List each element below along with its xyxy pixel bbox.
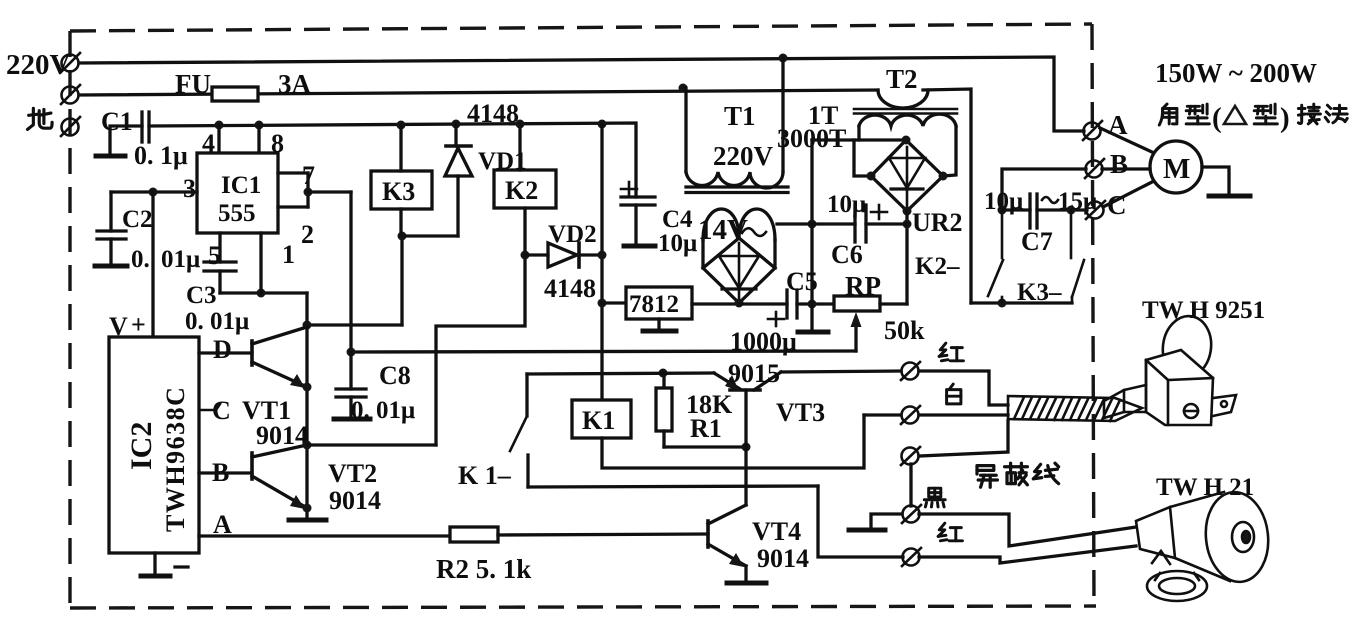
node VD1 top	[452, 120, 461, 129]
label hong5 red	[938, 523, 962, 541]
contact K3- switch	[1071, 210, 1084, 303]
sensor module TWH9251	[1104, 313, 1236, 425]
node VT1 emitter	[303, 383, 312, 392]
svg-text:K 1–: K 1–	[458, 461, 512, 490]
svg-text:VD2: VD2	[548, 221, 597, 248]
transformer T1 primary	[686, 58, 783, 188]
svg-text:0. 01μ: 0. 01μ	[185, 308, 249, 335]
enclosure dashed boundary	[70, 24, 1096, 608]
svg-text:IC2: IC2	[125, 422, 158, 470]
wire K3 to VD1	[402, 234, 458, 237]
capacitor C2	[97, 192, 126, 264]
node rail-352	[347, 348, 356, 357]
motor terminal C	[1086, 201, 1105, 219]
capacitor C8	[336, 352, 366, 417]
svg-text:R1: R1	[690, 414, 722, 443]
wire dc bus y304	[739, 302, 834, 305]
svg-text:15μ: 15μ	[1058, 188, 1097, 215]
svg-text:D: D	[213, 335, 232, 364]
T1 core	[686, 187, 788, 193]
wire hong5 staircase	[818, 486, 903, 557]
svg-text:14V: 14V	[698, 214, 748, 246]
svg-text:0. 01μ: 0. 01μ	[351, 397, 415, 424]
wire timing rail y352	[351, 351, 856, 352]
wire D to VT1	[199, 351, 252, 354]
motor ground	[1209, 194, 1250, 199]
wire hong1 to cable	[919, 371, 1008, 405]
svg-text:0.: 0.	[131, 246, 150, 273]
svg-text:C8: C8	[379, 361, 411, 390]
relay coil K2	[494, 170, 556, 208]
C4 end bar	[624, 244, 655, 249]
svg-text:IC1: IC1	[221, 172, 261, 199]
wire VT3 collector rail	[527, 373, 714, 374]
svg-text:4148: 4148	[544, 274, 596, 303]
svg-text:K2: K2	[505, 176, 538, 205]
svg-text:7812: 7812	[629, 291, 679, 318]
relay coil K3	[371, 171, 432, 209]
wire hong5 to horn	[919, 546, 1136, 563]
IC2 ground	[153, 553, 156, 574]
svg-text:K1: K1	[582, 406, 615, 435]
UR2 inner diode	[889, 147, 925, 206]
node K2 top	[516, 120, 525, 129]
wire B branch to C7	[1002, 169, 1086, 210]
label hei black	[924, 488, 945, 507]
svg-text:9014: 9014	[757, 544, 809, 573]
wire K2 contact branch bottom	[971, 301, 1072, 304]
transistor VT4	[708, 505, 746, 581]
svg-text:4148: 4148	[467, 99, 519, 128]
wire 7812 input	[602, 301, 626, 304]
node bottom contact	[998, 299, 1007, 308]
svg-text:10μ: 10μ	[827, 191, 866, 218]
wire R2 to VT4	[498, 534, 708, 535]
node C5 rail	[808, 300, 817, 309]
motor terminal A	[1083, 121, 1102, 140]
node 7812 input	[598, 299, 607, 308]
terminal hong5	[902, 548, 921, 566]
svg-text:RP: RP	[845, 271, 881, 301]
svg-text:150W ~ 200W: 150W ~ 200W	[1155, 58, 1317, 88]
transistor VT3	[714, 372, 781, 505]
C8 end bar	[334, 417, 370, 422]
7812 ground	[657, 319, 660, 330]
contact K2- switch	[988, 210, 1003, 303]
wire K3 bottom lead	[399, 209, 402, 236]
wire B to VT2	[199, 471, 252, 474]
node C6 rail	[903, 220, 912, 229]
node pin7-2	[304, 188, 313, 197]
svg-text:220V: 220V	[6, 49, 71, 81]
svg-text:C7: C7	[1021, 227, 1053, 256]
wire center vertical 812	[810, 140, 813, 331]
capacitor C6	[777, 205, 907, 242]
node T1 primary top	[779, 54, 788, 63]
VT2 ground	[289, 518, 326, 523]
wire VD2 branch vertical to K1	[600, 124, 603, 400]
label bai white	[947, 384, 961, 404]
svg-text:10μ: 10μ	[658, 230, 697, 257]
wire K2 bottom lead	[436, 208, 525, 445]
svg-text:555: 555	[218, 200, 256, 227]
svg-text:2: 2	[301, 220, 314, 249]
svg-text:C1: C1	[101, 107, 133, 136]
wire K3 top lead	[399, 125, 402, 171]
rectifier UR1 with 14V winding	[703, 209, 775, 303]
transformer T2 core	[854, 109, 957, 114]
fuse FU 3A	[212, 87, 258, 101]
svg-text:0. 1μ: 0. 1μ	[134, 141, 188, 170]
node C7 left	[998, 206, 1007, 215]
terminal shield	[901, 447, 920, 465]
svg-text:220V: 220V	[713, 141, 774, 171]
diode VD1	[445, 124, 472, 236]
node Vplus tap	[149, 188, 158, 197]
node wire2 T1	[679, 84, 688, 93]
node VD2 branch top	[598, 120, 607, 129]
wire pin1 lead	[259, 233, 262, 293]
220V input terminal lower	[61, 85, 80, 104]
op IC2 TWH9638C box	[109, 337, 199, 553]
node C7 right	[1067, 206, 1076, 215]
node VT2 collector	[303, 441, 312, 450]
wire node307 drop	[307, 293, 402, 518]
wire bai to cable	[919, 413, 1008, 416]
RP wiper arrow	[854, 322, 857, 351]
node K3 bottom	[398, 232, 407, 241]
capacitor C1	[110, 112, 149, 155]
terminal hong1	[901, 362, 920, 380]
wire hei to horn	[919, 514, 1136, 546]
wire RP right to UR2	[880, 224, 907, 304]
svg-text:V: V	[109, 312, 128, 341]
svg-text:FU: FU	[175, 69, 211, 99]
svg-text:50k: 50k	[884, 316, 925, 345]
node VD2 cathode	[598, 251, 607, 260]
svg-text:K3–: K3–	[1017, 279, 1062, 306]
14V wave	[742, 228, 766, 236]
wire hei ground	[871, 514, 902, 528]
wire VT3 emitter to hong1	[781, 371, 901, 372]
node VD2 anode	[521, 251, 530, 260]
svg-text:01μ: 01μ	[161, 246, 200, 273]
wire K1 bottom to bai terminal	[602, 415, 864, 468]
wire 7812 output	[692, 302, 739, 305]
812 end bar	[798, 330, 828, 335]
node UR1 minus	[735, 299, 744, 308]
C5 plus sign	[768, 312, 784, 326]
wire vcc rail y125	[149, 123, 636, 197]
capacitor C5	[787, 290, 797, 318]
svg-text:VT2: VT2	[328, 459, 377, 488]
VT4 ground	[727, 581, 766, 586]
diode VD2	[525, 243, 602, 267]
capacitor C7	[1002, 194, 1087, 228]
node K3 top	[397, 121, 406, 130]
wire pin C stub	[199, 404, 220, 410]
node VT2 emitter	[303, 504, 312, 513]
svg-text:9015: 9015	[728, 359, 780, 388]
label delta connection	[1159, 104, 1177, 125]
wire pin8 lead	[257, 125, 260, 153]
svg-text:3A: 3A	[278, 69, 312, 99]
svg-text:10μ: 10μ	[984, 188, 1023, 215]
label hong1 red	[939, 343, 963, 361]
shielded cable to sensor	[1008, 396, 1142, 421]
svg-text:+: +	[131, 310, 146, 339]
svg-text:C6: C6	[831, 240, 863, 269]
svg-text:(: (	[1212, 102, 1222, 134]
wire bai terminal left stub	[864, 413, 901, 416]
220V input terminal upper	[61, 53, 80, 72]
contact K1- switch	[510, 374, 818, 487]
UR2 nodes	[902, 136, 911, 145]
op IC1 555 box	[197, 153, 278, 233]
wire A to R2	[199, 534, 450, 537]
wire pin4 lead	[217, 125, 220, 153]
node pin1	[257, 289, 266, 298]
wire K3 coil drive	[400, 236, 403, 325]
wire pin2 to C8 vertical	[308, 192, 351, 352]
svg-text:3: 3	[183, 174, 196, 203]
node 812-224	[808, 220, 817, 229]
C4 plus sign	[621, 182, 637, 196]
horn speaker TWH21	[1136, 489, 1273, 601]
label earth 地	[28, 108, 53, 129]
svg-text:B: B	[1110, 149, 1128, 179]
C2 end bar	[95, 264, 127, 269]
wire V+ to IC2	[151, 192, 154, 337]
capacitor C4	[621, 197, 655, 244]
svg-text:): )	[1280, 102, 1290, 134]
potentiometer RP	[834, 296, 880, 311]
wire shield terminal to cable	[911, 421, 1008, 506]
svg-text:C4: C4	[662, 206, 693, 233]
svg-text:TW H 9251: TW H 9251	[1142, 297, 1265, 324]
svg-text:4: 4	[202, 129, 215, 158]
transistor VT1	[252, 327, 307, 387]
capacitor C3	[204, 233, 307, 293]
C1 ground bar	[96, 154, 125, 159]
wire live rail top	[79, 57, 1084, 131]
node pin8	[255, 121, 264, 130]
regulator 7812	[626, 287, 692, 319]
svg-text:1: 1	[282, 240, 295, 269]
relay coil K1	[572, 400, 631, 438]
svg-text:9014: 9014	[329, 486, 381, 515]
transistor VT2	[252, 445, 307, 508]
svg-text:C3: C3	[186, 282, 217, 309]
wire UR2 minus lead	[905, 211, 908, 224]
wire pin7 pin2 stubs	[278, 173, 308, 207]
svg-text:M: M	[1163, 153, 1190, 185]
motor terminal B	[1085, 159, 1104, 178]
svg-text:T1: T1	[724, 101, 756, 131]
svg-text:R2 5. 1k: R2 5. 1k	[436, 554, 531, 584]
svg-text:K3: K3	[382, 177, 415, 206]
UR1 inner diode	[719, 243, 759, 300]
terminal hei	[902, 505, 921, 523]
svg-text:VT4: VT4	[752, 517, 801, 546]
node 307-325	[303, 321, 312, 330]
wire K2 top lead	[518, 124, 521, 170]
svg-text:K2–: K2–	[915, 253, 960, 280]
label shielded wire	[977, 466, 997, 488]
wire VT relay feed y445	[307, 443, 436, 446]
svg-text:C2: C2	[122, 206, 153, 233]
svg-text:TWH9638C: TWH9638C	[161, 386, 190, 532]
wire neutral rail with T2 primary pass-through	[79, 89, 971, 303]
motor M	[1100, 128, 1229, 207]
svg-text:UR2: UR2	[912, 208, 963, 237]
svg-text:8: 8	[271, 129, 284, 158]
wire pin3	[111, 190, 197, 193]
node R1 top	[659, 369, 668, 378]
terminal bai	[901, 406, 920, 424]
T2 secondary winding	[812, 114, 956, 176]
svg-text:T2: T2	[886, 64, 918, 94]
svg-text:VT3: VT3	[776, 398, 825, 427]
resistor R1	[662, 373, 665, 388]
resistor R2	[450, 527, 498, 542]
earth terminal	[61, 117, 80, 136]
C6 plus sign	[871, 205, 887, 219]
rectifier UR2	[871, 140, 943, 211]
node R1 bottom	[742, 443, 751, 452]
node pin4	[215, 121, 224, 130]
